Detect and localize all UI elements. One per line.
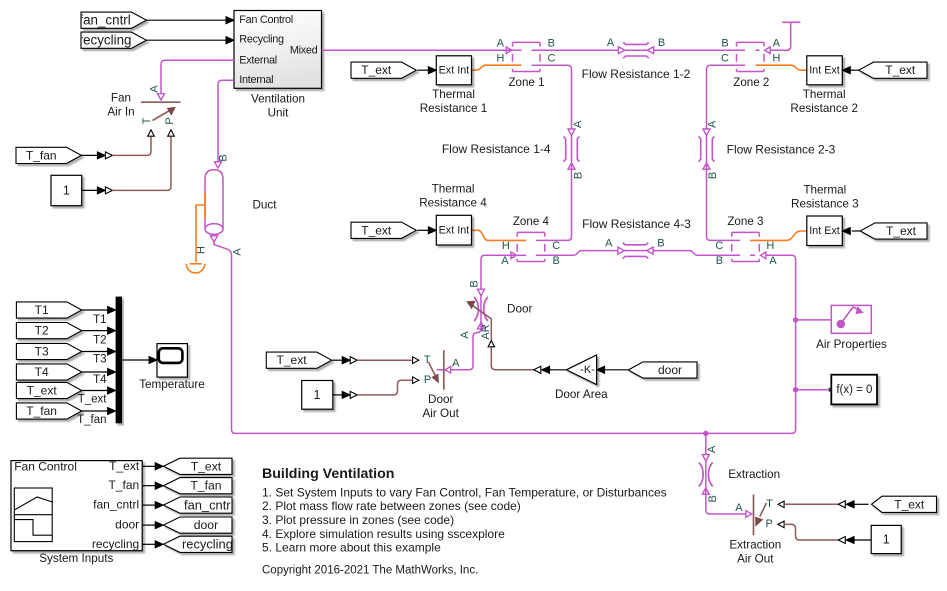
svg-text:Fan Control: Fan Control [239, 14, 293, 26]
svg-text:T_ext: T_ext [361, 63, 392, 77]
svg-text:A: A [501, 255, 509, 267]
svg-text:A: A [572, 120, 584, 128]
svg-text:T_ext: T_ext [191, 459, 222, 473]
svg-text:P: P [424, 374, 431, 386]
svg-text:A: A [707, 120, 719, 128]
svg-text:T_ext: T_ext [109, 459, 140, 473]
svg-text:Fan Control: Fan Control [14, 459, 77, 473]
svg-text:Thermal: Thermal [432, 88, 475, 101]
svg-text:Flow Resistance 2-3: Flow Resistance 2-3 [727, 142, 836, 156]
svg-text:A: A [773, 38, 781, 50]
svg-text:fan_cntrl: fan_cntrl [79, 13, 130, 28]
svg-text:1: 1 [314, 388, 321, 402]
svg-text:B: B [217, 154, 229, 161]
svg-text:C: C [715, 240, 723, 252]
svg-text:System Inputs: System Inputs [39, 552, 113, 565]
svg-text:Air Out: Air Out [423, 407, 460, 420]
svg-text:Zone 4: Zone 4 [513, 215, 550, 228]
svg-text:T_fan: T_fan [26, 404, 57, 418]
svg-text:B: B [657, 238, 664, 250]
svg-text:T_ext: T_ext [361, 223, 392, 237]
svg-text:Ext Int: Ext Int [439, 64, 470, 76]
svg-text:A: A [769, 255, 777, 267]
svg-text:Door: Door [507, 302, 532, 315]
svg-text:Unit: Unit [268, 106, 290, 119]
svg-text:T4: T4 [35, 365, 49, 379]
svg-text:T1: T1 [93, 314, 106, 326]
svg-text:B: B [548, 38, 555, 50]
svg-text:Air Out: Air Out [737, 552, 774, 565]
svg-text:3. Plot pressure in zones (see: 3. Plot pressure in zones (see code) [262, 513, 454, 527]
svg-text:T_fan: T_fan [190, 479, 221, 493]
svg-text:door: door [115, 518, 139, 532]
svg-text:T_ext: T_ext [894, 497, 925, 511]
svg-text:Resistance 1: Resistance 1 [420, 102, 488, 115]
svg-text:Door Area: Door Area [555, 388, 608, 401]
svg-text:B: B [707, 495, 719, 502]
svg-text:T: T [766, 498, 773, 510]
svg-text:B: B [707, 172, 719, 179]
svg-text:B: B [468, 280, 480, 287]
svg-text:Door: Door [428, 393, 453, 406]
svg-text:T_ext: T_ext [886, 224, 917, 238]
svg-text:5. Learn more about this examp: 5. Learn more about this example [262, 541, 441, 555]
svg-text:Int Ext: Int Ext [809, 225, 840, 237]
svg-text:A: A [497, 38, 505, 50]
svg-text:T1: T1 [35, 303, 49, 317]
svg-text:T: T [424, 354, 431, 366]
svg-text:C: C [721, 53, 729, 65]
svg-text:Extraction: Extraction [728, 468, 780, 481]
svg-text:Flow Resistance 4-3: Flow Resistance 4-3 [582, 217, 691, 231]
svg-text:4. Explore simulation results: 4. Explore simulation results using ssce… [262, 527, 505, 541]
svg-text:Copyright 2016-2021 The MathWo: Copyright 2016-2021 The MathWorks, Inc. [262, 564, 478, 576]
svg-text:recycling: recycling [182, 537, 233, 552]
svg-text:H: H [502, 240, 510, 252]
svg-text:Ventilation: Ventilation [251, 92, 305, 105]
svg-text:Int Ext: Int Ext [809, 64, 840, 76]
svg-text:C: C [552, 240, 560, 252]
svg-text:Duct: Duct [252, 198, 277, 211]
svg-text:Temperature: Temperature [139, 378, 205, 391]
svg-text:T_fan: T_fan [77, 414, 106, 426]
svg-text:Zone 2: Zone 2 [733, 76, 769, 89]
svg-text:Building Ventilation: Building Ventilation [262, 466, 394, 482]
svg-text:External: External [239, 54, 277, 66]
svg-text:fan_cntrl: fan_cntrl [184, 497, 233, 512]
svg-text:T_fan: T_fan [26, 148, 57, 162]
svg-text:A: A [706, 445, 718, 453]
svg-text:Resistance 2: Resistance 2 [790, 102, 858, 115]
svg-text:P: P [164, 117, 176, 124]
svg-text:fan_cntrl: fan_cntrl [93, 498, 139, 512]
svg-text:recycling: recycling [92, 537, 139, 551]
svg-text:C: C [548, 53, 556, 65]
svg-text:H: H [195, 246, 207, 254]
svg-text:T3: T3 [93, 354, 106, 366]
svg-text:1: 1 [63, 183, 70, 197]
svg-text:2. Plot mass flow rate between: 2. Plot mass flow rate between zones (se… [262, 499, 521, 513]
svg-text:T4: T4 [93, 374, 107, 386]
svg-text:H: H [496, 53, 504, 65]
svg-text:T_ext: T_ext [78, 394, 108, 406]
svg-text:B: B [573, 172, 585, 179]
svg-text:Ext Int: Ext Int [439, 225, 470, 237]
svg-text:B: B [553, 255, 560, 267]
svg-text:Flow Resistance 1-2: Flow Resistance 1-2 [582, 67, 691, 81]
svg-text:T_ext: T_ext [885, 63, 916, 77]
svg-text:A: A [452, 358, 460, 370]
svg-text:door: door [194, 518, 218, 532]
svg-text:B: B [716, 255, 723, 267]
svg-text:recycling: recycling [79, 33, 132, 48]
svg-text:Resistance 4: Resistance 4 [419, 197, 487, 210]
svg-text:T3: T3 [35, 344, 49, 358]
svg-text:T_ext: T_ext [277, 353, 308, 367]
svg-text:H: H [766, 240, 774, 252]
svg-text:Extraction: Extraction [729, 538, 781, 551]
svg-text:T2: T2 [35, 324, 49, 338]
svg-text:Fan: Fan [111, 91, 131, 104]
svg-text:Air Properties: Air Properties [816, 338, 887, 351]
svg-text:1: 1 [883, 532, 890, 546]
svg-text:T: T [141, 117, 153, 124]
svg-text:Recycling: Recycling [239, 34, 284, 46]
svg-text:A: A [605, 238, 613, 250]
svg-text:door: door [658, 363, 682, 377]
svg-text:A: A [148, 85, 160, 93]
svg-text:Zone 3: Zone 3 [727, 215, 763, 228]
svg-text:T_ext: T_ext [27, 383, 58, 397]
svg-text:B: B [721, 38, 728, 50]
svg-text:1. Set System Inputs to vary F: 1. Set System Inputs to vary Fan Control… [262, 485, 667, 499]
svg-text:A: A [459, 331, 471, 339]
svg-text:H: H [772, 53, 780, 65]
svg-text:P: P [766, 518, 773, 530]
svg-text:T2: T2 [93, 334, 106, 346]
svg-text:f(x) = 0: f(x) = 0 [836, 384, 872, 396]
svg-text:Internal: Internal [239, 74, 273, 86]
svg-text:B: B [658, 37, 665, 49]
svg-text:T_fan: T_fan [109, 478, 140, 492]
svg-text:A: A [607, 37, 615, 49]
svg-text:-K-: -K- [580, 364, 595, 376]
svg-text:Zone 1: Zone 1 [508, 76, 544, 89]
svg-text:Mixed: Mixed [290, 44, 318, 56]
svg-text:Thermal: Thermal [803, 183, 846, 196]
svg-text:Thermal: Thermal [803, 88, 846, 101]
svg-text:Thermal: Thermal [432, 182, 475, 195]
svg-text:A: A [735, 502, 743, 514]
svg-text:Resistance 3: Resistance 3 [791, 198, 859, 211]
svg-text:Flow Resistance 1-4: Flow Resistance 1-4 [442, 142, 551, 156]
svg-text:Air In: Air In [107, 105, 134, 118]
svg-text:A: A [231, 248, 243, 256]
